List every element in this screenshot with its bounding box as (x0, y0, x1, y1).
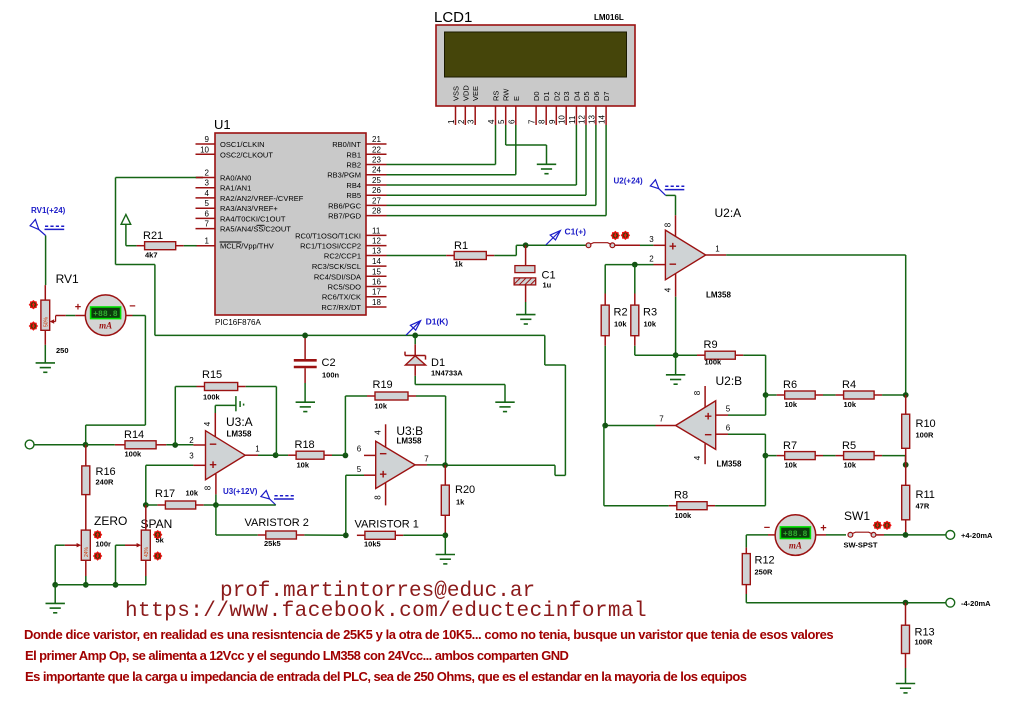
ground at U2:A pin4 (666, 375, 685, 384)
wire input terminal to R14 node (34, 444, 86, 446)
wire power arrow to R21 (126, 245, 137, 247)
svg-text:R20: R20 (455, 484, 475, 496)
wire red RV1 wiper lead (56, 315, 86, 317)
svg-text:mA: mA (99, 321, 112, 331)
node pin3 R17 SPAN junction (143, 502, 149, 508)
wire R7 to R5 (823, 455, 836, 457)
node R6 R9 pin5 junction (763, 392, 769, 398)
svg-text:-4-20mA: -4-20mA (961, 599, 991, 608)
svg-text:LM358: LM358 (706, 291, 731, 300)
svg-text:8: 8 (538, 119, 547, 124)
svg-text:VARISTOR 1: VARISTOR 1 (355, 519, 419, 531)
wire U2:B out down to R8 (604, 426, 669, 506)
svg-text:R10: R10 (916, 418, 936, 430)
svg-text:RV1(+24): RV1(+24) (31, 206, 66, 215)
svg-text:6: 6 (357, 445, 362, 454)
svg-text:8: 8 (204, 485, 213, 490)
wire SPAN wiper down to rail (115, 545, 117, 585)
wire red U3:A pin3 stub (193, 464, 205, 466)
svg-text:LM358: LM358 (227, 430, 252, 439)
SPAN state marker up (153, 530, 162, 539)
wire input node to R14 (86, 444, 115, 446)
svg-text:18: 18 (372, 298, 381, 307)
svg-text:U1: U1 (214, 117, 231, 132)
svg-text:1N4733A: 1N4733A (431, 369, 463, 378)
svg-text:15: 15 (372, 267, 381, 276)
svg-text:R2: R2 (614, 307, 628, 319)
wire RV1 bottom to ground (44, 345, 46, 363)
input terminal (left) (25, 440, 34, 449)
potentiometer ZERO body (81, 514, 127, 560)
wire U2:B pin6 to R7 node (728, 434, 765, 455)
svg-text:11: 11 (568, 115, 577, 124)
svg-text:−: − (704, 427, 712, 442)
varistor VARISTOR 2 (245, 517, 309, 548)
node ZERO wiper rail (52, 582, 58, 588)
ground under C1 (516, 315, 535, 324)
wire red R13 top lead (905, 603, 907, 626)
svg-text:27: 27 (372, 196, 381, 205)
label pin 7 U3:B (424, 455, 429, 464)
wire red U2:B pin6 lead (716, 433, 728, 435)
wire red R2 top lead (604, 294, 606, 306)
svg-text:U2:A: U2:A (715, 206, 742, 220)
node varistor junction (343, 532, 349, 538)
svg-text:8: 8 (663, 222, 672, 227)
U1 left pins (OSC RA0-RA5 MCLR) stubs, numbers, names (196, 135, 304, 251)
svg-text:RA0/AN0: RA0/AN0 (220, 174, 251, 183)
wire R15 right to output node (246, 387, 277, 456)
svg-text:+: + (209, 457, 217, 472)
node R10 R5 R11 junction (903, 462, 909, 468)
ZERO state marker down (93, 551, 102, 560)
node R14 R15 pin2 junction (172, 442, 178, 448)
svg-text:10k: 10k (297, 461, 310, 470)
svg-text:13: 13 (587, 115, 596, 124)
terminal +4-20mA (946, 531, 993, 541)
svg-text:1: 1 (255, 445, 260, 454)
svg-text:100r: 100r (96, 540, 112, 549)
node R4 R10 feedback junction (903, 392, 909, 398)
resistor R3 (631, 305, 657, 336)
wire R15 left to pin2 node (175, 387, 196, 446)
svg-text:5: 5 (497, 119, 506, 124)
label pin 1 U3:A (255, 445, 260, 454)
svg-text:RB5: RB5 (346, 191, 361, 200)
resistor R5 (836, 440, 883, 470)
wire R6 node lead (766, 394, 777, 396)
svg-text:10k: 10k (844, 400, 857, 409)
wire rail to ground (54, 585, 56, 603)
svg-text:PIC16F876A: PIC16F876A (215, 318, 261, 327)
svg-text:Es importante que la carga u i: Es importante que la carga u impedancia … (25, 669, 747, 684)
U1 right pins (RB0-RB7 RC0-RC7) stubs, numbers, names (295, 135, 386, 312)
wire red U2:B pin7 lead (656, 425, 676, 427)
label pin 8 U2:B (693, 390, 702, 395)
wire ammeter2 left to R12 (746, 535, 768, 548)
svg-text:4: 4 (203, 421, 212, 426)
svg-text:10: 10 (558, 115, 567, 124)
wire R5 to R11 node (882, 456, 905, 465)
wire R1 to C1 node (494, 245, 586, 255)
state marker down at pin3 switch (611, 231, 620, 240)
label pin 7 U2:B (659, 415, 664, 424)
wire R6 to R4 (823, 394, 836, 396)
svg-text:RB7/PGD: RB7/PGD (328, 212, 362, 221)
svg-text:28: 28 (372, 207, 381, 216)
node SPAN wiper rail (113, 582, 119, 588)
power terminal RV1(+24) (30, 206, 66, 236)
wire red R3 bottom lead (634, 336, 636, 346)
svg-text:U3(+12V): U3(+12V) (223, 487, 258, 496)
potentiometer SPAN body (141, 517, 173, 560)
ground under C2 (296, 402, 315, 411)
svg-text:RC1/T1OSI/CCP2: RC1/T1OSI/CCP2 (300, 242, 361, 251)
svg-text:3: 3 (467, 119, 476, 124)
SPAN wiper arrow (116, 543, 142, 547)
wire R8 to R7 node (715, 456, 765, 506)
wire U1 RC2 pin13 to R1 (387, 255, 447, 257)
resistor R10 (902, 395, 936, 465)
op-amp U2:B LM358 (676, 374, 743, 469)
wire red R12 top lead (745, 548, 747, 554)
svg-text:10k: 10k (844, 461, 857, 470)
svg-text:MCLR/Vpp/THV: MCLR/Vpp/THV (220, 242, 274, 251)
terminal -4-20mA (946, 598, 991, 608)
wire C2 to ground (304, 383, 306, 402)
svg-text:OSC2/CLKOUT: OSC2/CLKOUT (220, 150, 273, 159)
wire red RA0 stub lead (196, 177, 203, 179)
wire RV1 wiper to ammeter + (66, 315, 76, 317)
wire R14 to U3:A pin2 (166, 444, 193, 446)
wire D1 top lead (414, 335, 416, 355)
svg-text:E: E (512, 96, 521, 101)
ZERO wiper arrow (55, 543, 81, 547)
wire R18 to U3:B pin6 (332, 454, 345, 456)
op-amp U3:B LM358 (376, 424, 423, 489)
wire red U2:A pin2 stub (654, 264, 666, 266)
text note line 1 (24, 627, 833, 642)
wire R20 node to ground (444, 535, 446, 554)
svg-text:8: 8 (693, 390, 702, 395)
switch contact circles on U2:A pin3 wire (586, 243, 615, 248)
wire D1 anode to ground (415, 376, 505, 402)
node input R14 R16 junction (83, 442, 89, 448)
wire R2 bottom to U2:B output (604, 346, 606, 426)
text facebook line (125, 600, 647, 623)
svg-text:3: 3 (649, 235, 654, 244)
svg-text:R18: R18 (295, 439, 315, 451)
svg-text:6: 6 (205, 209, 210, 218)
node U3:A output junction (273, 452, 279, 458)
wire R3 bottom to ground node (635, 346, 676, 355)
svg-text:RC6/TX/CK: RC6/TX/CK (322, 293, 361, 302)
svg-text:SW-SPST: SW-SPST (844, 541, 878, 550)
svg-text:12: 12 (578, 115, 587, 124)
svg-text:−: − (129, 301, 135, 313)
svg-text:R11: R11 (916, 489, 935, 501)
wire U2(+24) to U2:A pin8 (666, 195, 676, 215)
resistor R12 (742, 554, 774, 585)
node -4-20mA junction (903, 600, 909, 606)
svg-text:240R: 240R (96, 478, 115, 487)
label + at ammeter 1 (75, 302, 81, 314)
svg-text:7: 7 (424, 455, 429, 464)
svg-text:25: 25 (372, 176, 381, 185)
wire R7 node lead (765, 455, 776, 457)
svg-text:7: 7 (528, 119, 537, 124)
power arrow above R21 (121, 215, 131, 246)
svg-text:100n: 100n (322, 371, 340, 380)
wire red U3:B output lead (415, 464, 427, 466)
svg-text:RB1: RB1 (346, 150, 361, 159)
wire SW1 to +4-20mA node (884, 534, 946, 536)
svg-text:RB6/PGC: RB6/PGC (328, 201, 362, 210)
svg-text:R15: R15 (202, 369, 222, 381)
svg-text:1k: 1k (456, 498, 465, 507)
wire U2:B pin5 to R6 node (728, 395, 766, 415)
ground right of D1 (495, 402, 514, 411)
svg-text:1: 1 (205, 237, 210, 246)
wire ZERO wiper down to rail (54, 545, 56, 585)
svg-text:https://www.facebook.com/educt: https://www.facebook.com/eductecinformal (125, 600, 647, 623)
svg-text:25k5: 25k5 (264, 539, 281, 548)
resistor R11 (902, 465, 935, 535)
label pin 4 U2:B (693, 455, 702, 460)
svg-text:VARISTOR 2: VARISTOR 2 (245, 517, 309, 529)
wire R19 right to output node (416, 396, 446, 465)
svg-text:D3: D3 (562, 91, 571, 101)
RV1 state marker down (29, 321, 38, 330)
svg-text:LM358: LM358 (717, 460, 742, 469)
svg-text:D4: D4 (572, 91, 581, 101)
svg-text:D5: D5 (582, 91, 591, 101)
svg-text:23: 23 (372, 156, 381, 165)
op-amp U3:A LM358 (206, 415, 253, 480)
wire red U2:B pin8 stub (704, 386, 706, 407)
SW1 state marker up (882, 521, 891, 530)
node R7 R8 pin6 junction (763, 453, 769, 459)
svg-text:2: 2 (189, 436, 194, 445)
svg-text:5: 5 (357, 465, 362, 474)
wire U2:A pin4 to ground node (675, 297, 677, 356)
svg-text:50%: 50% (44, 316, 50, 327)
label pin 8 U3:A (204, 485, 213, 490)
node +4-20mA junction (903, 532, 909, 538)
SW1 state marker down (873, 521, 882, 530)
wire R13 to ground (905, 668, 907, 683)
wire R19 left to pin6 node (345, 396, 367, 455)
resistor R13 (902, 625, 935, 653)
svg-text:C2: C2 (322, 357, 336, 369)
wire varistor1 to R20 node (403, 534, 445, 536)
wire red U2:A pin4 stub (675, 274, 677, 297)
svg-text:U3:A: U3:A (226, 415, 253, 429)
svg-text:R16: R16 (96, 466, 116, 478)
svg-text:−: − (209, 436, 217, 451)
label pin 5 U3:B (357, 465, 362, 474)
resistor R21 (137, 230, 184, 260)
svg-text:R3: R3 (643, 307, 657, 319)
svg-text:RA2/AN2/VREF-/CVREF: RA2/AN2/VREF-/CVREF (220, 194, 304, 203)
label - at ammeter 1 (129, 301, 135, 313)
op-amp U2:A LM358 (665, 206, 741, 300)
svg-text:D6: D6 (592, 91, 601, 101)
svg-text:9: 9 (205, 135, 210, 144)
svg-text:R5: R5 (842, 440, 856, 452)
svg-text:5: 5 (205, 199, 210, 208)
wire U3:A output node (258, 454, 276, 456)
wire red R2 bottom lead (604, 336, 606, 346)
resistor R14 (115, 429, 167, 459)
ground under LCD RW (537, 164, 556, 173)
svg-text:1: 1 (447, 119, 456, 124)
svg-text:100k: 100k (675, 511, 693, 520)
svg-text:SW1: SW1 (844, 509, 870, 523)
power terminal U3(+12V) (223, 487, 294, 505)
wire red ammeter2 leads (768, 534, 826, 536)
resistor R19 (367, 379, 416, 411)
svg-text:U2:B: U2:B (716, 374, 743, 388)
wire LCD D7 to PIC RB7 (387, 125, 607, 216)
svg-text:R7: R7 (783, 440, 797, 452)
wire ground node to R9 (676, 354, 697, 356)
wire red ammeter1 - lead (126, 315, 133, 317)
svg-text:El primer Amp Op, se alimenta: El primer Amp Op, se alimenta a 12Vcc y … (25, 648, 569, 663)
wire R17 node to U3(+12V) (216, 504, 276, 506)
node U2:B output junction (602, 423, 608, 429)
svg-text:6: 6 (507, 119, 516, 124)
SPAN state marker down (153, 551, 162, 560)
svg-text:R17: R17 (155, 488, 175, 500)
label pin 3 U3:A (189, 452, 194, 461)
resistor R18 (288, 439, 332, 470)
svg-text:U2(+24): U2(+24) (614, 177, 643, 186)
svg-text:24%: 24% (84, 546, 90, 557)
svg-text:4: 4 (487, 119, 496, 124)
power terminal U2(+24) (614, 177, 685, 196)
wire U3:A pin4 to battery symbol (215, 405, 236, 413)
wire R21 to U1 MCLR pin1 (184, 245, 197, 247)
capacitor C1 top lead (525, 245, 527, 265)
svg-text:4: 4 (374, 430, 383, 435)
ammeter AM2 mA (775, 515, 816, 556)
wire LCD RW pin5 to ground (506, 125, 547, 164)
svg-text:2: 2 (205, 169, 210, 178)
label pin 1 U2:A (715, 245, 720, 254)
svg-text:4: 4 (693, 455, 702, 460)
ground under R13 (896, 684, 915, 693)
svg-text:3: 3 (189, 452, 194, 461)
wire red SW1 right lead (876, 534, 884, 536)
wire red U3:A pin4 stub top (214, 413, 216, 437)
svg-text:2: 2 (457, 119, 466, 124)
node ZERO bottom rail (83, 582, 89, 588)
label pin 3 U2:A (649, 235, 654, 244)
wire R17 right node (204, 504, 216, 506)
svg-text:+: + (820, 523, 826, 535)
label + at ammeter 2 (820, 523, 826, 535)
resistor R20 (441, 465, 475, 535)
svg-text:−: − (379, 446, 387, 461)
svg-text:RC7/RX/DT: RC7/RX/DT (321, 303, 361, 312)
svg-text:RA1/AN1: RA1/AN1 (220, 184, 251, 193)
wire R17 node down to varistor2 (216, 505, 258, 535)
RV1 state marker up (29, 300, 38, 309)
label pin 2 U3:A (189, 436, 194, 445)
resistor R15 (197, 369, 246, 402)
svg-text:3: 3 (205, 179, 210, 188)
wire U3:A pin8 to R17 node (215, 494, 217, 505)
resistor R4 (836, 379, 883, 409)
label pin 8 U3:B (374, 495, 383, 500)
svg-text:Donde dice varistor, en realid: Donde dice varistor, en realidad es una … (24, 627, 833, 642)
svg-text:D1(K): D1(K) (426, 317, 449, 327)
svg-text:10k: 10k (186, 489, 199, 498)
wire red R13 bottom lead (905, 654, 907, 669)
varistor VARISTOR 1 (355, 519, 419, 549)
svg-text:13: 13 (372, 247, 381, 256)
wire ammeter1 - to input node (86, 316, 146, 446)
svg-text:250: 250 (56, 346, 69, 355)
label pin 4 U2:A (663, 287, 672, 292)
svg-text:ZERO: ZERO (94, 514, 127, 528)
wire red ZERO bottom lead (85, 560, 87, 576)
svg-text:D0: D0 (532, 91, 541, 101)
svg-text:D1: D1 (431, 357, 445, 369)
svg-text:1: 1 (715, 245, 720, 254)
svg-text:RC4/SDI/SDA: RC4/SDI/SDA (314, 272, 361, 281)
node R18 R19 pin6 junction (343, 453, 349, 459)
resistor R2 (601, 305, 627, 336)
wire red C1 bottom lead (525, 285, 527, 302)
state marker up at pin3 switch (621, 231, 630, 240)
svg-text:8: 8 (374, 495, 383, 500)
text note line 3 (25, 669, 747, 684)
svg-text:VEE: VEE (471, 86, 480, 101)
svg-text:+88.8: +88.8 (783, 530, 808, 539)
svg-text:100k: 100k (705, 358, 723, 367)
resistor R8 (669, 490, 715, 521)
svg-text:+: + (704, 409, 712, 424)
node pin2 R3 junction (632, 262, 638, 268)
label pin 6 U2:B (726, 424, 731, 433)
LCD LM016L display LCD1 (434, 9, 635, 106)
voltage probe D1(K) (406, 317, 448, 336)
wire U2:B pin7 to R2/R8 node (605, 425, 655, 427)
svg-text:100k: 100k (125, 450, 143, 459)
svg-text:24: 24 (372, 166, 381, 175)
svg-text:10k: 10k (785, 461, 798, 470)
wire red switch to U2:A pin3 (615, 244, 666, 246)
text email line (220, 580, 535, 603)
wire red U3:B pin5 stub (364, 474, 376, 476)
svg-text:RC0/T1OSO/T1CKI: RC0/T1OSO/T1CKI (295, 231, 361, 240)
wire U3:A pin3 to R17 node (146, 465, 194, 505)
microcontroller U1 PIC16F876A body (214, 117, 366, 327)
node R9 ground junction (673, 352, 679, 358)
wire red U3:B pin4 stub top (385, 424, 387, 447)
wire U3:B output junction wire (427, 464, 445, 466)
svg-text:−: − (669, 257, 677, 272)
ground under R20 (436, 555, 455, 564)
svg-text:R4: R4 (842, 379, 856, 391)
svg-text:10k5: 10k5 (364, 540, 381, 549)
wire LCD D4 to PIC RB4 (387, 125, 577, 185)
svg-text:4k7: 4k7 (145, 251, 158, 260)
svg-text:VDD: VDD (461, 85, 470, 101)
node D1 junction (412, 333, 418, 339)
